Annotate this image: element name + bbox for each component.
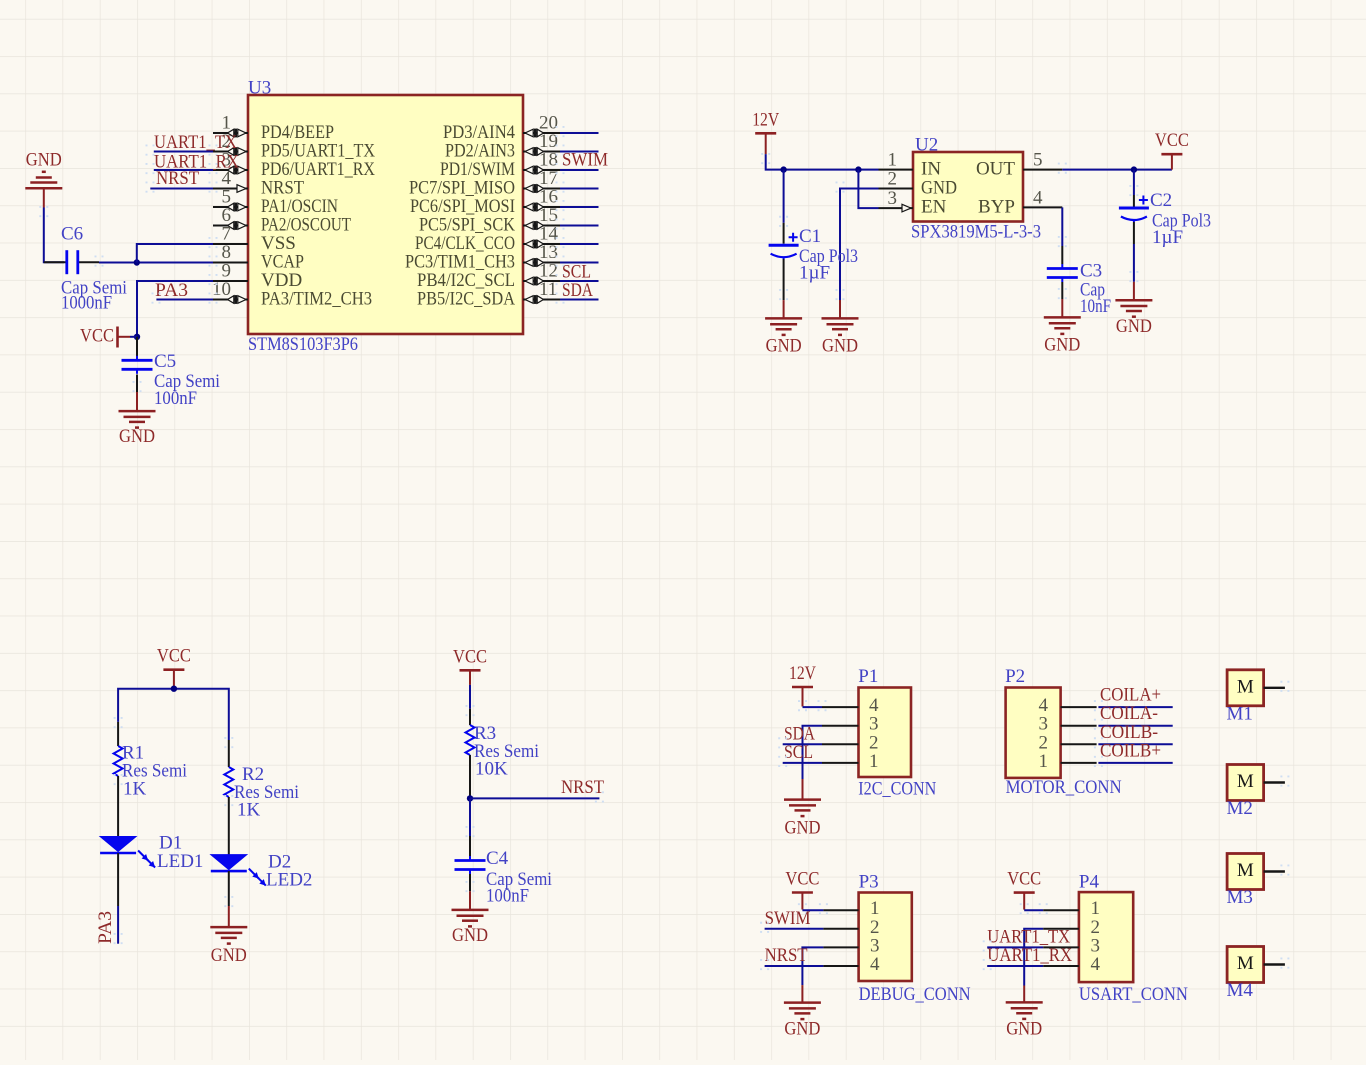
P4 pin 4 <box>1043 965 1079 967</box>
svg-text:10nF: 10nF <box>1080 296 1111 317</box>
P4 pin 3 <box>1043 946 1079 948</box>
U2 pin 4 (BYP) <box>1023 188 1062 209</box>
net label COILB- <box>1100 722 1158 743</box>
P1 pin 1 <box>822 762 859 764</box>
connector P2 MOTOR_CONN body <box>1005 666 1122 798</box>
junction at EN branch <box>855 166 861 172</box>
svg-text:P2: P2 <box>1005 666 1025 687</box>
svg-text:5: 5 <box>1033 150 1043 171</box>
capacitor C2 (polarized) <box>1119 170 1211 285</box>
net label UART1_RX at U3 <box>154 152 239 173</box>
svg-text:C3: C3 <box>1080 261 1102 282</box>
U3 pin 14 (PC4/CLK_CCO) <box>523 224 560 249</box>
wire D2 to ground <box>225 871 232 927</box>
svg-text:PA3/TIM2_CH3: PA3/TIM2_CH3 <box>261 289 372 310</box>
net label UART1_TX at U3 <box>154 132 237 153</box>
U3 pin 20 (PD3/AIN4) <box>523 113 560 138</box>
svg-text:1: 1 <box>869 751 879 772</box>
svg-text:GND: GND <box>26 150 62 171</box>
net label UART1_RX at P4 <box>987 945 1072 966</box>
junction at C2 <box>1131 166 1137 172</box>
P2 pin 1 <box>1061 762 1097 764</box>
net label PA3 (vertical) <box>95 911 116 944</box>
motor M1 pin <box>1264 681 1289 695</box>
wire P3 pin 3 to ground <box>802 947 823 985</box>
junction at VCC/C5 <box>130 334 140 340</box>
U2 pin 3 (EN) <box>879 188 914 212</box>
svg-text:M: M <box>1237 860 1254 881</box>
svg-text:1000nF: 1000nF <box>61 293 112 314</box>
U3 pin 4 (NRST) <box>213 168 248 192</box>
U3 pin 5 (PA1/OSCIN) <box>213 187 248 212</box>
wire VCC rail to R1 and R2 <box>118 689 229 740</box>
svg-text:LED1: LED1 <box>157 851 203 872</box>
connector P4 USART_CONN body <box>1079 872 1188 1006</box>
wire UART1_RX to P4 pin 4 <box>984 959 1043 973</box>
motor M2 pin <box>1264 776 1289 790</box>
svg-text:1K: 1K <box>123 779 147 800</box>
U3 pin 7 (VSS) <box>213 224 248 245</box>
P3 pin 4 <box>823 965 858 967</box>
wire P4 pin 2 to ground <box>1024 929 1043 986</box>
power port VCC (above R1/R2) <box>157 646 191 689</box>
svg-text:I2C_CONN: I2C_CONN <box>858 779 936 800</box>
net label NRST at U3 <box>156 168 199 189</box>
wire SCL to P1 pin 1 <box>779 756 822 770</box>
svg-text:EN: EN <box>921 197 947 218</box>
wire U2 GND pin to ground <box>837 182 879 301</box>
svg-text:GND: GND <box>822 335 858 356</box>
svg-text:VCC: VCC <box>157 646 191 667</box>
wire 12V to U2 EN <box>858 170 878 209</box>
svg-text:OUT: OUT <box>976 159 1015 180</box>
svg-text:C5: C5 <box>154 351 176 372</box>
svg-text:GND: GND <box>785 818 821 839</box>
connector P3 DEBUG_CONN body <box>859 872 971 1006</box>
net label SDA at P1 <box>784 724 815 745</box>
U3 pin 16 (PC6/SPI_MOSI) <box>523 187 560 212</box>
svg-text:GND: GND <box>1116 316 1152 337</box>
wire D1 to PA3 <box>115 853 122 947</box>
svg-text:VCC: VCC <box>453 646 487 667</box>
svg-text:GND: GND <box>784 1019 820 1040</box>
motor M4 pin <box>1264 958 1289 972</box>
ground GND below U2 pin 2 <box>822 289 859 356</box>
svg-text:GND: GND <box>921 178 957 199</box>
P3 pin 2 <box>823 928 858 930</box>
svg-text:M3: M3 <box>1227 887 1253 908</box>
connector P1 I2C_CONN body <box>858 666 936 800</box>
junction below VCC <box>171 686 177 692</box>
svg-text:IN: IN <box>921 159 941 180</box>
wire NRST to P3 pin 4 <box>761 959 823 973</box>
P4 pin 1 <box>1043 909 1079 911</box>
wire GND to C6 <box>40 206 64 262</box>
U3 pin 11 (PB5/I2C_SDA) <box>523 279 560 304</box>
net label COILA- <box>1100 703 1158 724</box>
svg-text:1µF: 1µF <box>799 263 830 284</box>
svg-text:P3: P3 <box>859 872 879 893</box>
power port VCC (at P4) <box>1007 869 1041 910</box>
svg-text:DEBUG_CONN: DEBUG_CONN <box>859 984 971 1005</box>
wire VCC to P3 pin 1 <box>799 903 827 917</box>
svg-text:SCL: SCL <box>784 742 813 763</box>
net label SWIM <box>562 150 608 171</box>
P4 pin 2 <box>1043 928 1079 930</box>
U3 pin 10 (PA3/TIM2_CH3) <box>212 279 248 304</box>
wire SWIM to P3 pin 2 <box>761 922 823 936</box>
resistor R2 <box>224 737 299 855</box>
power port 12V (at U2 input) <box>752 109 779 154</box>
svg-text:12V: 12V <box>752 109 779 130</box>
wire VCC to R3 <box>467 685 474 719</box>
IC U3 STM8S103F3P6 body <box>248 78 523 356</box>
wire P1 pin 3 to ground <box>803 726 823 779</box>
svg-text:SDA: SDA <box>562 280 593 301</box>
wire UART1_TX to U3 pin 2 <box>147 145 217 159</box>
U2 pin 5 (OUT) <box>1023 150 1062 171</box>
svg-text:COILB+: COILB+ <box>1100 740 1161 761</box>
svg-text:M: M <box>1237 771 1254 792</box>
svg-text:4: 4 <box>1091 954 1101 975</box>
net label SCL at P1 <box>784 742 813 763</box>
svg-text:100nF: 100nF <box>154 388 197 409</box>
wire stub at U3 pin 19 <box>557 145 599 159</box>
motor M2 body <box>1227 765 1264 820</box>
svg-text:4: 4 <box>870 954 880 975</box>
U3 pin 8 (VCAP) <box>213 242 248 263</box>
wire stub at U3 pin 11 <box>557 293 599 307</box>
svg-text:VCC: VCC <box>80 326 114 347</box>
U3 pin 2 (PD5/UART1_TX) <box>213 131 248 156</box>
motor M1 body <box>1227 670 1264 725</box>
svg-text:U2: U2 <box>915 135 938 156</box>
P3 pin 3 <box>823 946 858 948</box>
svg-text:GND: GND <box>1006 1018 1042 1039</box>
wire 12V rail to U2 IN <box>762 153 878 170</box>
U3 pin 9 (VDD) <box>213 261 248 282</box>
wire stub at U3 pin 20 <box>557 126 599 140</box>
svg-text:NRST: NRST <box>156 168 199 189</box>
svg-text:NRST: NRST <box>765 945 808 966</box>
power port VCC (at P3) <box>785 869 819 910</box>
svg-text:GND: GND <box>452 925 488 946</box>
ground GND below C3 <box>1044 299 1081 355</box>
U3 pin 1 (PD4/BEEP) <box>213 113 248 138</box>
svg-text:U3: U3 <box>248 78 271 99</box>
svg-text:2: 2 <box>888 169 898 190</box>
U3 pin 19 (PD2/AIN3) <box>523 131 560 156</box>
svg-text:PA3: PA3 <box>155 280 188 301</box>
net label COILB+ <box>1100 740 1161 761</box>
junction at C1 <box>780 166 786 172</box>
wire stub at U3 pin 17 <box>557 182 599 196</box>
wire stub at U3 pin 12 <box>557 274 599 288</box>
wire NRST to U3 pin 4 <box>147 182 217 196</box>
P1 pin 4 <box>822 706 859 708</box>
power port VCC (above R3) <box>453 646 487 685</box>
svg-text:STM8S103F3P6: STM8S103F3P6 <box>248 334 358 355</box>
svg-text:UART1_TX: UART1_TX <box>154 132 237 153</box>
svg-text:M4: M4 <box>1227 980 1254 1001</box>
wire UART1_RX to U3 pin 3 <box>147 163 217 177</box>
capacitor C1 (polarized) <box>769 170 858 303</box>
svg-text:SPX3819M5-L-3-3: SPX3819M5-L-3-3 <box>911 222 1041 243</box>
wire U2 OUT to VCC <box>1059 163 1172 177</box>
resistor R1 <box>114 717 187 837</box>
motor M3 pin <box>1264 865 1289 879</box>
U3 pin 17 (PC7/SPI_MISO) <box>523 168 560 193</box>
svg-text:SWIM: SWIM <box>562 150 608 171</box>
LED D1 <box>100 833 203 873</box>
svg-text:10K: 10K <box>475 759 508 780</box>
P2 pin 3 <box>1061 725 1097 727</box>
motor M4 body <box>1227 947 1264 1002</box>
P1 pin 2 <box>822 743 859 745</box>
svg-text:4: 4 <box>1033 188 1043 209</box>
svg-text:VCC: VCC <box>785 869 819 890</box>
power port 12V (at P1) <box>789 663 816 707</box>
svg-text:GND: GND <box>766 335 802 356</box>
svg-text:100nF: 100nF <box>486 886 529 907</box>
ground GND below P3 <box>784 985 821 1040</box>
ground GND below C1 <box>765 300 802 356</box>
wire stub at U3 pin 18 <box>557 163 599 177</box>
svg-text:P4: P4 <box>1079 872 1100 893</box>
net label SWIM at P3 <box>765 908 811 929</box>
svg-text:GND: GND <box>211 945 247 966</box>
ground GND below P4 <box>1006 986 1043 1040</box>
motor M3 body <box>1227 854 1264 909</box>
svg-text:VCC: VCC <box>1155 130 1189 151</box>
svg-text:USART_CONN: USART_CONN <box>1079 984 1188 1005</box>
wire 12V to P1 pin 4 <box>799 700 826 714</box>
svg-text:C4: C4 <box>486 848 509 869</box>
svg-text:LED2: LED2 <box>266 870 312 891</box>
U3 pin 3 (PD6/UART1_RX) <box>213 150 248 175</box>
svg-text:PB5/I2C_SDA: PB5/I2C_SDA <box>417 289 515 310</box>
P2 pin 4 <box>1061 706 1097 708</box>
svg-text:NRST: NRST <box>561 777 604 798</box>
wire junction up to VSS (U3 pin 7) <box>137 237 217 263</box>
wire UART1_TX to P4 pin 3 <box>984 940 1043 954</box>
svg-text:MOTOR_CONN: MOTOR_CONN <box>1006 777 1122 798</box>
capacitor C6 <box>44 224 127 314</box>
power port VCC (at U2 output) <box>1155 130 1189 169</box>
U3 pin 12 (PB4/I2C_SCL) <box>523 261 560 286</box>
P1 pin 3 <box>822 725 859 727</box>
svg-text:M2: M2 <box>1227 798 1253 819</box>
svg-text:3: 3 <box>888 188 898 209</box>
svg-text:VCC: VCC <box>1007 869 1041 890</box>
svg-text:1µF: 1µF <box>1152 227 1183 248</box>
wire SDA to P1 pin 2 <box>779 737 822 751</box>
junction at C6/VCAP <box>134 259 140 265</box>
svg-text:11: 11 <box>539 279 557 300</box>
U2 pin 2 (GND) <box>879 169 914 190</box>
power port VCC (left, at C5) <box>80 326 130 348</box>
svg-text:12V: 12V <box>789 663 816 684</box>
wire PA3 to U3 pin 10 <box>153 293 217 307</box>
net label PA3 at U3 <box>155 280 188 301</box>
net label COILA+ <box>1100 685 1161 706</box>
svg-text:M: M <box>1237 953 1254 974</box>
U3 pin 15 (PC5/SPI_SCK) <box>523 205 560 230</box>
wire C6 to VCAP (U3 pin 8) <box>96 256 217 270</box>
svg-text:GND: GND <box>1044 334 1080 355</box>
capacitor C4 <box>455 798 553 906</box>
ground GND below P1 <box>784 779 821 839</box>
svg-text:C1: C1 <box>799 226 821 247</box>
svg-text:1: 1 <box>888 150 898 171</box>
wire COILB- from P2 <box>1095 737 1173 751</box>
resistor R3 <box>466 709 540 799</box>
P2 pin 2 <box>1061 743 1097 745</box>
U3 pin 18 (PD1/SWIM) <box>523 150 560 175</box>
ground GND below D2 <box>210 927 247 966</box>
svg-text:10: 10 <box>212 279 231 300</box>
wire COILA- from P2 <box>1095 719 1173 733</box>
net label UART1_TX at P4 <box>987 927 1070 948</box>
wire stub at U3 pin 15 <box>557 219 599 233</box>
svg-text:BYP: BYP <box>978 197 1015 218</box>
svg-text:M: M <box>1237 676 1254 697</box>
wire VCC to P4 pin 1 <box>1021 903 1047 917</box>
net label NRST (at R3) <box>561 777 604 798</box>
ground GND below C5 <box>119 381 156 447</box>
net label NRST at P3 <box>765 945 808 966</box>
svg-text:PA3: PA3 <box>95 911 116 944</box>
net label SDA <box>562 280 593 301</box>
U3 pin 6 (PA2/OSCOUT) <box>213 205 248 230</box>
capacitor C5 <box>122 337 221 409</box>
wire stub at U3 pin 14 <box>557 237 599 251</box>
svg-text:1: 1 <box>1039 751 1049 772</box>
U2 pin 1 (IN) <box>879 150 914 171</box>
wire COILA+ from P2 <box>1095 700 1173 714</box>
wire COILB+ from P2 <box>1095 756 1173 770</box>
svg-text:C2: C2 <box>1150 190 1172 211</box>
capacitor C3 <box>1047 207 1111 317</box>
ground GND below C2 <box>1115 282 1152 337</box>
IC U2 SPX3819M5-L-3-3 body <box>911 135 1041 243</box>
U3 pin 13 (PC3/TIM1_CH3) <box>523 242 560 267</box>
wire stub at U3 pin 13 <box>557 256 599 270</box>
svg-text:C6: C6 <box>61 224 83 245</box>
svg-text:1K: 1K <box>237 800 261 821</box>
LED D2 <box>211 852 313 891</box>
net label SCL <box>562 262 591 283</box>
wire VDD (U3 pin 9) down to VCC junction <box>137 274 217 337</box>
svg-text:P1: P1 <box>858 666 878 687</box>
wire stub at U3 pin 16 <box>557 200 599 214</box>
ground GND below C4 <box>452 891 489 946</box>
wire NRST from junction <box>470 791 603 805</box>
svg-text:M1: M1 <box>1227 703 1253 724</box>
junction R3/C4/NRST <box>467 795 473 801</box>
power port GND (top-left, rotated) <box>25 150 62 208</box>
P3 pin 1 <box>823 909 858 911</box>
svg-text:SWIM: SWIM <box>765 908 811 929</box>
svg-text:GND: GND <box>119 426 155 447</box>
